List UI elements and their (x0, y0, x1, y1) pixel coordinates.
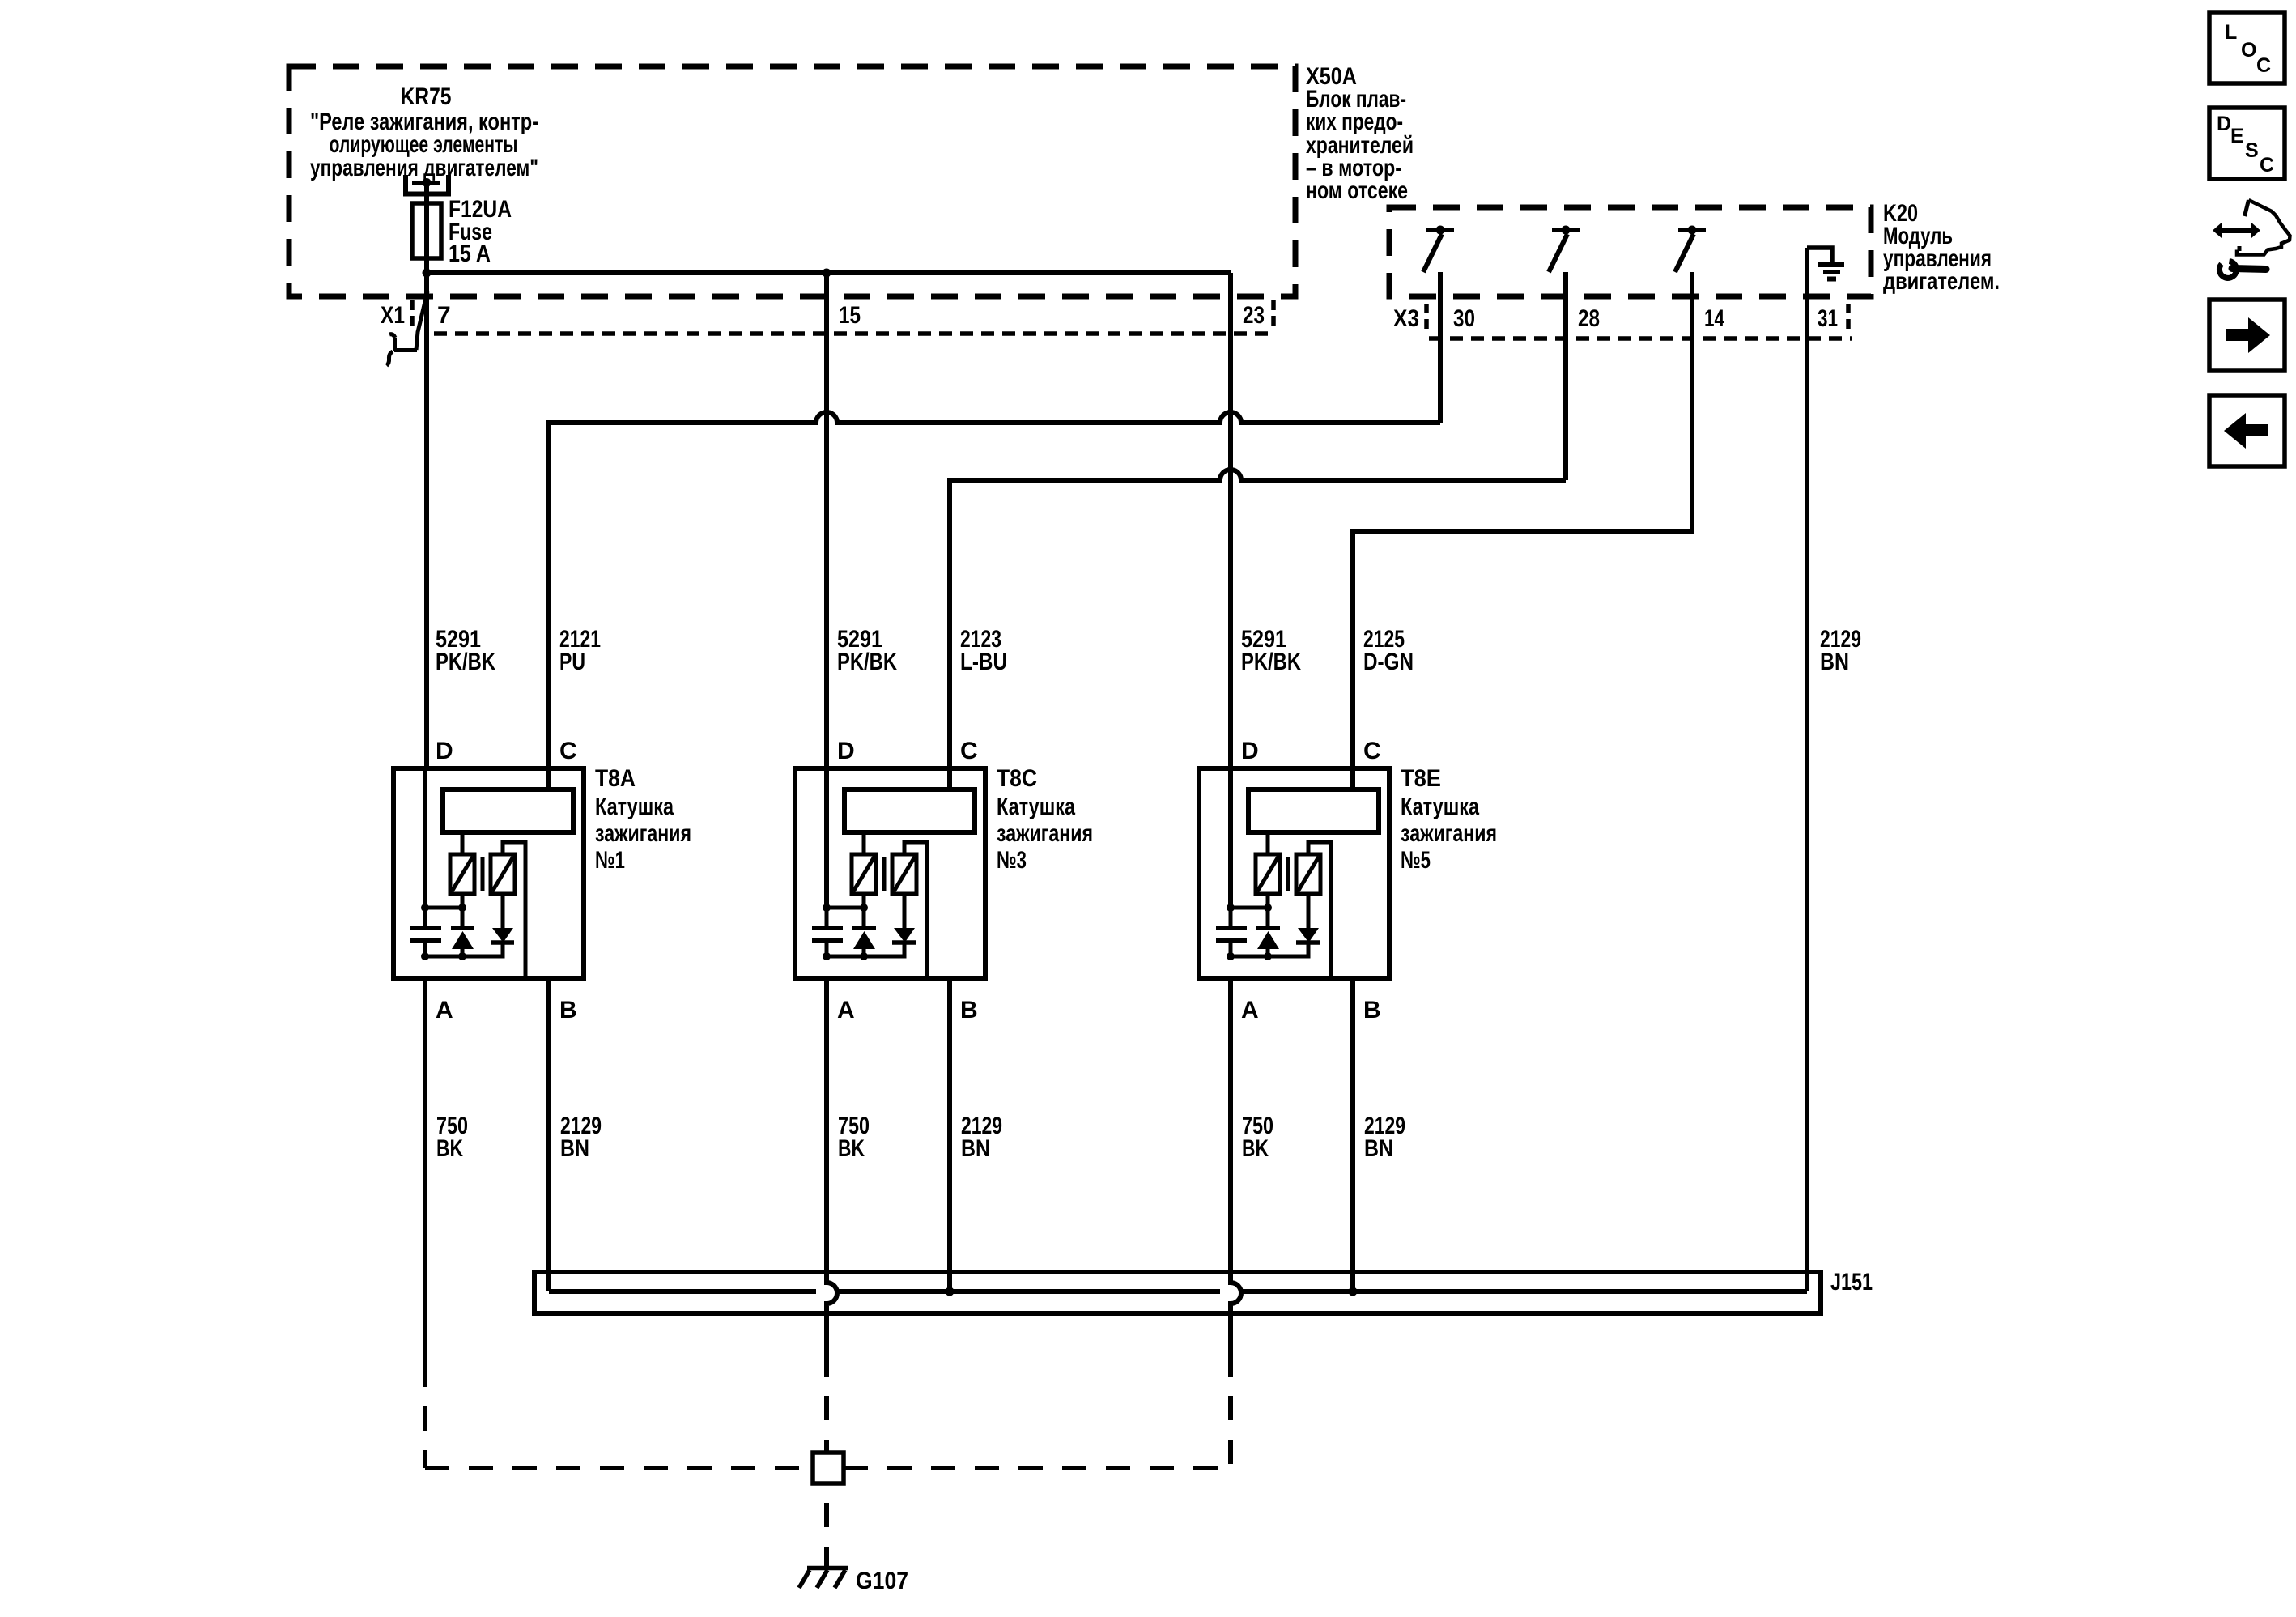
connector X1 left tick (410, 300, 415, 326)
wire labels 750 BK / 2129 BN below coils (436, 1113, 1405, 1162)
wire 2129 BN from coil T8C pin B to bus junction (947, 978, 952, 1291)
bus J151 middle wire (549, 1289, 1807, 1294)
dashed ground wire from coil T8E pin A (1228, 1377, 1233, 1468)
bus J151 label (1830, 1269, 1873, 1296)
K20 internal ground pin 31 (1807, 248, 1832, 262)
svg-text:23: 23 (1243, 302, 1265, 329)
svg-text:28: 28 (1578, 305, 1600, 332)
wire 2129 BN from coil T8E pin B to bus junction (1350, 978, 1355, 1291)
coil T8A primary winding block (443, 789, 573, 832)
svg-text:D-GN: D-GN (1363, 649, 1414, 675)
wire 23 down to coil T8E pin D (1228, 273, 1233, 768)
junction dot top bus / pin 15 wire (823, 269, 831, 278)
wire 2125 D-GN from pin 14 to coil T8E pin C (1353, 272, 1692, 768)
svg-text:X3: X3 (1393, 305, 1419, 332)
connector labels X1 7 15 23 (381, 302, 1265, 329)
svg-text:PU: PU (559, 649, 585, 675)
svg-text:30: 30 (1453, 305, 1475, 332)
connector X3 right tick (1846, 304, 1851, 329)
coil T8E name label (1401, 765, 1497, 874)
coil T8C name label (997, 765, 1093, 874)
svg-text:зажигания: зажигания (1401, 820, 1497, 847)
ignition coil T8C box (795, 768, 985, 978)
svg-text:№1: №1 (595, 847, 625, 874)
svg-text:BN: BN (1364, 1135, 1393, 1162)
coil T8A name label (595, 765, 691, 874)
splice node (813, 1453, 844, 1483)
svg-text:зажигания: зажигания (997, 820, 1093, 847)
svg-text:B: B (1363, 997, 1381, 1023)
svg-text:D: D (837, 738, 855, 764)
coil T8A pin D and pin C wire stubs inside box (425, 768, 549, 908)
relay KR75 label (310, 83, 538, 181)
svg-text:A: A (436, 997, 453, 1023)
svg-text:7: 7 (437, 302, 451, 329)
icon double arrow (2213, 223, 2260, 238)
svg-text:15: 15 (839, 302, 861, 329)
dashed ground wire from coil T8C pin A to splice (824, 1377, 829, 1453)
coil T8A pin labels D C A B (436, 738, 577, 1023)
ground G107 symbol (807, 1566, 848, 1571)
wire 15 down to coil T8C pin D (824, 273, 829, 768)
svg-text:Катушка: Катушка (1401, 794, 1479, 820)
bus J151 outer outline (534, 1272, 1821, 1313)
svg-text:PK/BK: PK/BK (837, 649, 897, 675)
svg-text:C: C (960, 738, 978, 764)
svg-text:двигателем.: двигателем. (1883, 268, 2000, 295)
dashed ground wire splice to T8E branch (844, 1466, 1231, 1470)
svg-text:Катушка: Катушка (595, 794, 674, 820)
wire 750 BK from coil T8E pin A down through bus with hop (1231, 978, 1241, 1377)
svg-text:ном отсеке: ном отсеке (1306, 177, 1408, 204)
svg-text:B: B (559, 997, 577, 1023)
svg-text:G107: G107 (856, 1568, 908, 1594)
connector X1 bottom dashed line (434, 331, 1273, 336)
coil T8C pin D and pin C wire stubs inside box (827, 768, 950, 908)
ignition coil T8A box (393, 768, 584, 978)
svg-text:A: A (837, 997, 855, 1023)
coil T8A internal circuit (410, 832, 525, 976)
svg-text:BN: BN (560, 1135, 589, 1162)
coil T8C primary winding block (844, 789, 975, 832)
icon back arrow box (2209, 395, 2285, 466)
coil T8C pin labels D C A B (837, 738, 978, 1023)
svg-text:PK/BK: PK/BK (436, 649, 495, 675)
svg-text:№5: №5 (1401, 847, 1431, 874)
svg-text:C: C (2260, 154, 2274, 177)
svg-text:C: C (559, 738, 577, 764)
ignition coil T8E box (1199, 768, 1389, 978)
junction dot fuse output / top bus (423, 269, 432, 278)
svg-text:D: D (2217, 113, 2231, 135)
svg-text:31: 31 (1818, 305, 1838, 332)
top bus wire from fuse to pin 23 drop (427, 270, 1231, 275)
svg-text:BN: BN (961, 1135, 990, 1162)
wire 2129 BN from coil T8A pin B down into bus J151 (546, 978, 551, 1291)
bus junction dot coil T8E pin B (1349, 1287, 1358, 1296)
coil T8E primary winding block (1248, 789, 1379, 832)
K20 label (1883, 200, 2000, 295)
svg-text:O: O (2241, 39, 2256, 62)
wire 750 BK from coil T8A pin A down (to dashed splice path) (423, 978, 427, 1387)
svg-text:J151: J151 (1830, 1269, 1873, 1296)
dashed ground wire from coil T8A pin A down (423, 1387, 427, 1468)
svg-text:L: L (2225, 21, 2237, 44)
svg-text:T8E: T8E (1401, 765, 1441, 792)
svg-text:№3: №3 (997, 847, 1027, 874)
svg-text:T8C: T8C (997, 765, 1037, 792)
relay KR75 contact terminal (403, 175, 451, 194)
icon LOC box (2209, 12, 2285, 83)
svg-text:15 A: 15 A (449, 240, 491, 267)
clip symbol at connector X1 pin 7 (394, 291, 427, 351)
svg-text:KR75: KR75 (401, 83, 452, 110)
svg-text:A: A (1241, 997, 1259, 1023)
fuse F12UA (412, 203, 441, 258)
wire 7 from relay through fuse down to coil T8A pin D (424, 185, 429, 768)
fuse block X50A dashed box (289, 66, 1295, 296)
switch driver pin 30 in K20 (1426, 228, 1454, 232)
connector X3 left tick (1424, 304, 1429, 329)
connector X1 right tick (1271, 300, 1276, 326)
svg-text:зажигания: зажигания (595, 820, 691, 847)
svg-text:C: C (1363, 738, 1381, 764)
bus junction dot coil T8C pin B (946, 1287, 955, 1296)
icon wrench (2219, 262, 2236, 279)
icon DESC box (2209, 108, 2285, 179)
wire labels 5291 PK/BK, 2121 PU, 2123 L-BU, 2125 D-GN, 2129 BN (436, 626, 1861, 675)
coil T8C internal circuit (812, 832, 927, 976)
svg-text:C: C (2256, 54, 2271, 77)
wire 2121 PU from pin 30 to coil T8A pin C (549, 272, 1440, 768)
svg-text:X1: X1 (381, 302, 405, 329)
svg-text:T8A: T8A (595, 765, 636, 792)
svg-text:14: 14 (1704, 305, 1724, 332)
svg-text:BK: BK (436, 1135, 463, 1162)
coil T8E internal circuit (1216, 832, 1331, 976)
dashed wire from splice to ground G107 (824, 1483, 829, 1566)
svg-text:Катушка: Катушка (997, 794, 1075, 820)
ECM K20 dashed box (1389, 207, 1871, 296)
svg-text:E: E (2230, 125, 2244, 147)
switch driver pin 28 in K20 (1552, 228, 1580, 232)
svg-text:PK/BK: PK/BK (1241, 649, 1301, 675)
coil T8E pin labels D C A B (1241, 738, 1381, 1023)
svg-text:управления двигателем": управления двигателем" (310, 155, 538, 181)
svg-text:D: D (1241, 738, 1259, 764)
wire 750 BK from coil T8C pin A down through bus with hop (827, 978, 837, 1377)
wire 2123 L-BU from pin 28 to coil T8C pin C (950, 272, 1566, 768)
connector labels X3 30 28 14 31 (1393, 305, 1838, 332)
svg-text:B: B (960, 997, 978, 1023)
switch driver pin 14 in K20 (1678, 228, 1706, 232)
svg-text:D: D (436, 738, 453, 764)
dashed ground wire horizontal to splice (425, 1466, 813, 1470)
icon forward arrow box (2209, 300, 2285, 371)
ground G107 label (856, 1568, 908, 1594)
coil T8E pin D and pin C wire stubs inside box (1231, 768, 1353, 908)
icon car silhouette (2237, 200, 2290, 255)
svg-text:S: S (2245, 139, 2259, 162)
svg-text:BK: BK (838, 1135, 865, 1162)
wire 2129 BN from pin 31 down to bus J151 (1805, 248, 1809, 1291)
fuse block X50A label (1306, 63, 1414, 204)
svg-text:BK: BK (1242, 1135, 1269, 1162)
connector X3 bottom dashed line (1429, 336, 1852, 341)
svg-text:BN: BN (1820, 649, 1849, 675)
svg-text:L-BU: L-BU (960, 649, 1007, 675)
